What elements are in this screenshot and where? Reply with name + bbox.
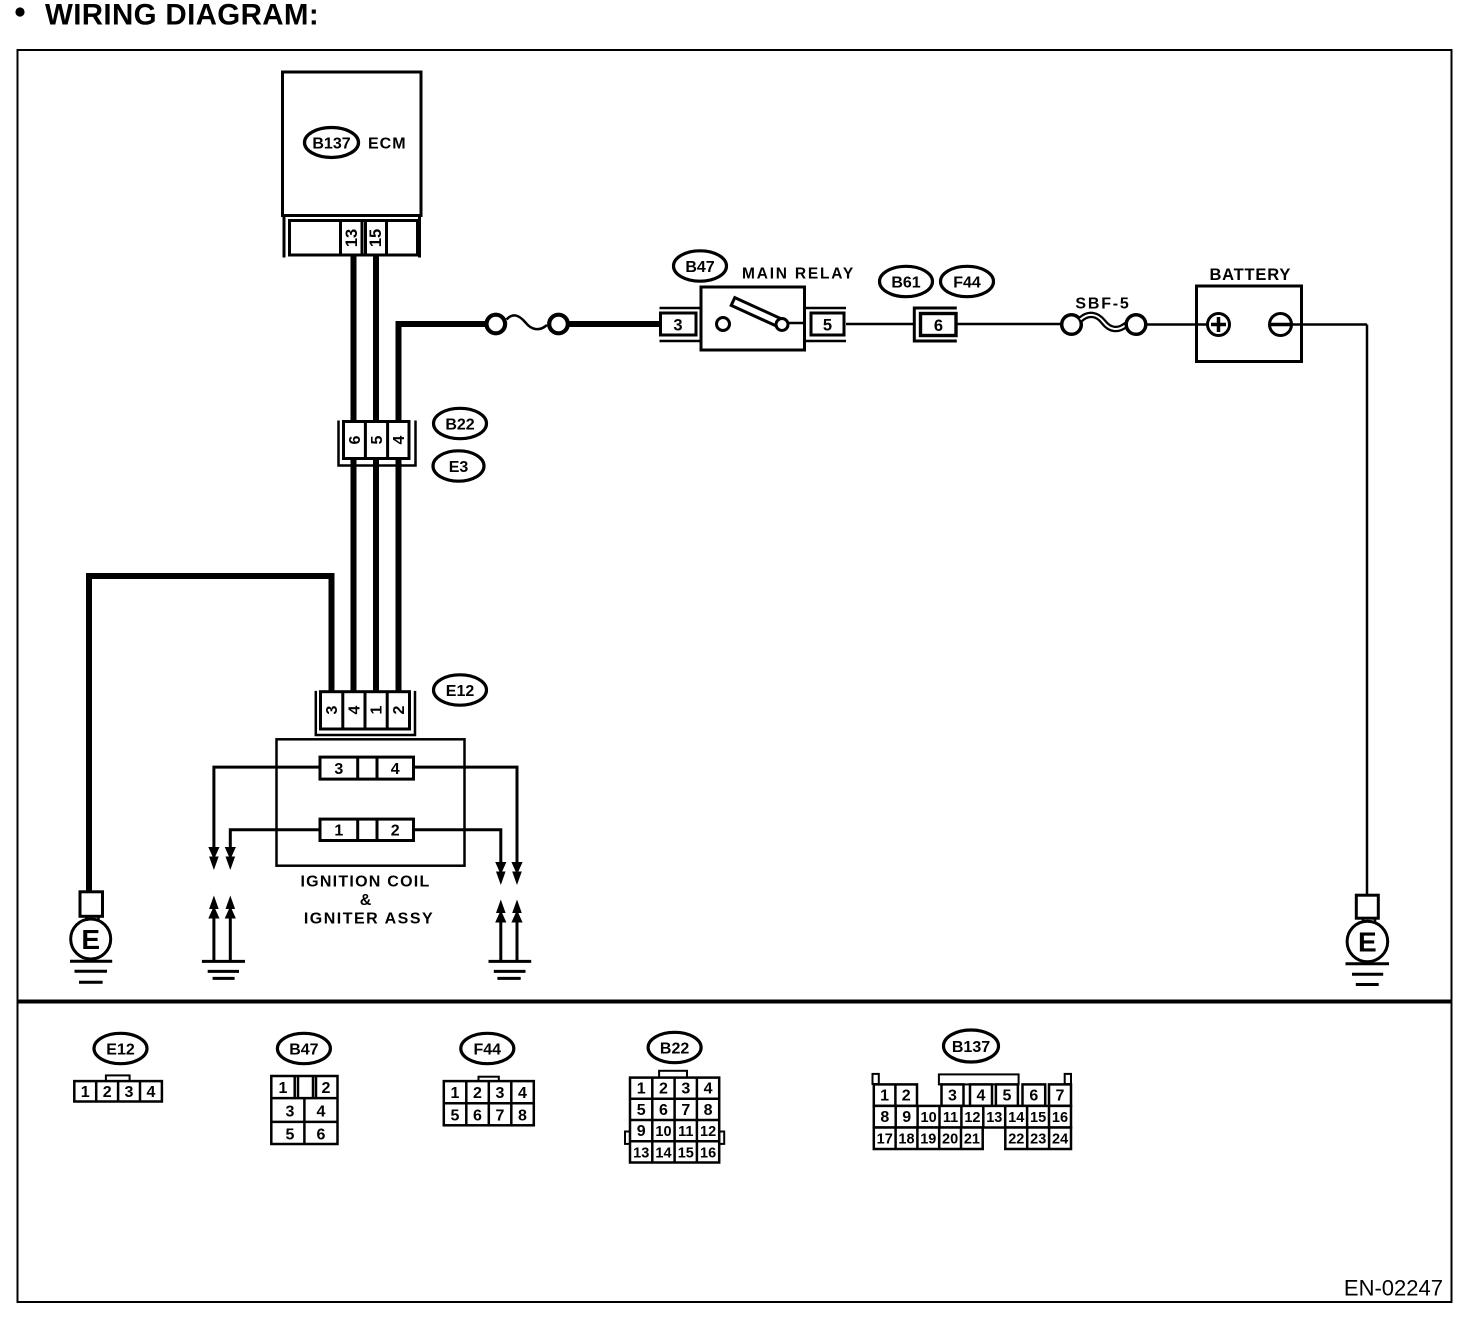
left ground E circle <box>71 919 111 959</box>
legend B137 row3 left <box>874 1128 983 1150</box>
right ground connector square <box>1356 895 1378 918</box>
svg-text:E12: E12 <box>446 683 475 700</box>
svg-text:SBF-5: SBF-5 <box>1075 296 1130 313</box>
svg-text:WIRING DIAGRAM:: WIRING DIAGRAM: <box>45 0 319 32</box>
svg-text:1: 1 <box>369 705 386 714</box>
connector oval B137 <box>305 128 359 158</box>
battery box <box>1197 286 1302 362</box>
svg-text:6: 6 <box>473 1108 482 1125</box>
legend B47 oval <box>277 1033 330 1063</box>
legend B47 grid <box>271 1076 337 1144</box>
relay pin 3 connector top line <box>660 307 702 310</box>
svg-text:7: 7 <box>1056 1088 1065 1105</box>
svg-text:6: 6 <box>347 435 364 444</box>
connector E12 box <box>321 692 410 729</box>
wire relay branch horizontal <box>396 321 487 327</box>
svg-text:12: 12 <box>700 1124 716 1140</box>
svg-text:23: 23 <box>1030 1132 1046 1148</box>
wire battery down to ground E <box>1366 325 1369 896</box>
battery minus terminal <box>1270 314 1292 336</box>
wire ECM pin15 to E12 pin1 <box>373 255 379 692</box>
left ground connector square <box>80 892 103 917</box>
svg-text:11: 11 <box>943 1110 958 1126</box>
legend B137 center tab <box>939 1074 1019 1084</box>
svg-text:2: 2 <box>391 823 400 840</box>
svg-text:5: 5 <box>286 1127 295 1144</box>
svg-text:12: 12 <box>964 1110 980 1126</box>
svg-text:E: E <box>1358 927 1377 958</box>
coil connector 1-2 <box>320 819 414 840</box>
svg-text:4: 4 <box>391 761 400 778</box>
wire joint to relay pin3 <box>568 321 661 327</box>
legend B22 grid <box>630 1078 719 1163</box>
fuse SBF-5 band <box>1081 315 1127 329</box>
main relay B47 box <box>701 287 805 350</box>
ECM connector shell left side <box>283 216 286 258</box>
spark arrow down right2 <box>511 862 522 875</box>
svg-text:3: 3 <box>496 1085 505 1102</box>
svg-text:5: 5 <box>1002 1088 1011 1105</box>
svg-text:16: 16 <box>1052 1110 1068 1126</box>
svg-text:2: 2 <box>902 1088 911 1105</box>
svg-text:B22: B22 <box>660 1040 689 1057</box>
svg-text:4: 4 <box>391 435 408 444</box>
svg-text:9: 9 <box>902 1109 911 1126</box>
svg-text:10: 10 <box>655 1124 671 1140</box>
svg-text:4: 4 <box>704 1081 713 1098</box>
svg-text:B47: B47 <box>289 1041 318 1058</box>
spark arrow down left2 <box>225 847 236 860</box>
svg-text:1: 1 <box>880 1088 889 1105</box>
svg-text:20: 20 <box>942 1132 958 1148</box>
legend B137 right tab <box>1065 1074 1071 1084</box>
svg-text:7: 7 <box>496 1108 505 1125</box>
wire left ground branch vertical <box>86 573 92 892</box>
legend B137 row2 <box>874 1106 1071 1128</box>
svg-text:3: 3 <box>286 1104 295 1121</box>
svg-text:2: 2 <box>659 1081 668 1098</box>
svg-text:13: 13 <box>633 1145 649 1161</box>
right ground symbol <box>1346 962 1390 965</box>
wire fuse to battery <box>1146 323 1197 326</box>
svg-text:2: 2 <box>391 705 408 714</box>
svg-text:3: 3 <box>948 1088 957 1105</box>
svg-text:4: 4 <box>347 705 364 714</box>
legend B137 row1 cells 1-2 <box>874 1084 917 1106</box>
wire into battery plus <box>1197 323 1208 326</box>
inline joint wave <box>507 315 548 329</box>
wire ECM pin13 to E12 pin4 <box>351 255 357 692</box>
svg-text:18: 18 <box>898 1132 914 1148</box>
svg-text:8: 8 <box>518 1108 527 1125</box>
svg-text:22: 22 <box>1008 1132 1024 1148</box>
svg-text:3: 3 <box>324 705 341 714</box>
oval E3 <box>433 451 484 481</box>
legend E12 tab <box>106 1075 130 1081</box>
wire coil 1 to spark <box>230 830 320 848</box>
relay pin 3 box <box>661 313 697 335</box>
svg-text:B22: B22 <box>445 416 474 433</box>
svg-text:B47: B47 <box>685 259 714 276</box>
svg-text:E3: E3 <box>449 459 469 476</box>
connector 6 outer bracket <box>914 308 957 341</box>
oval B61 <box>880 266 933 296</box>
svg-text:5: 5 <box>369 435 386 444</box>
svg-text:13: 13 <box>986 1110 1002 1126</box>
svg-text:BATTERY: BATTERY <box>1209 266 1291 284</box>
svg-text:3: 3 <box>673 317 682 335</box>
legend F44 oval <box>461 1033 514 1063</box>
legend F44 grid <box>444 1081 534 1125</box>
svg-text:16: 16 <box>700 1145 716 1161</box>
svg-text:2: 2 <box>322 1080 331 1097</box>
ECM connector strip <box>290 221 418 256</box>
svg-text:21: 21 <box>964 1132 980 1148</box>
battery plus terminal <box>1208 314 1230 336</box>
svg-text:8: 8 <box>704 1102 713 1119</box>
fuse SBF-5 right circle <box>1126 315 1146 335</box>
legend B137 left tab <box>873 1074 879 1084</box>
right ground E circle <box>1347 921 1388 962</box>
svg-text:9: 9 <box>637 1123 646 1140</box>
svg-text:6: 6 <box>1029 1088 1038 1105</box>
legend B22 oval <box>648 1032 701 1062</box>
svg-text:1: 1 <box>279 1080 288 1097</box>
wire relay to connector 6 <box>846 323 913 326</box>
wire relay branch vertical <box>396 321 402 692</box>
spark gap up arrows left <box>212 917 215 961</box>
wire left branch to E12 pin3 <box>329 573 335 692</box>
ECM U1 box <box>283 72 422 216</box>
wire coil 2 to spark <box>414 830 501 863</box>
connector E12 bracket <box>316 691 415 735</box>
spark gap up arrows right <box>499 921 502 961</box>
svg-text:13: 13 <box>343 229 361 247</box>
svg-text:B61: B61 <box>891 274 920 291</box>
wire connector6 to fuse <box>958 323 1064 326</box>
svg-text:B137: B137 <box>952 1039 990 1056</box>
svg-text:1: 1 <box>81 1084 90 1101</box>
svg-text:&: & <box>360 892 372 909</box>
legend F44 tab <box>479 1077 499 1081</box>
wire coil 4 to spark <box>414 767 518 863</box>
wire coil 3 to spark <box>214 767 320 848</box>
svg-text:19: 19 <box>920 1132 936 1148</box>
relay pin 3 connector bottom line <box>660 340 702 343</box>
svg-text:4: 4 <box>147 1084 156 1101</box>
svg-text:14: 14 <box>655 1145 671 1161</box>
svg-text:6: 6 <box>659 1102 668 1119</box>
svg-text:8: 8 <box>880 1109 889 1126</box>
relay switch end circle <box>776 319 788 331</box>
oval B22 <box>434 408 487 438</box>
svg-text:2: 2 <box>103 1084 112 1101</box>
svg-text:15: 15 <box>678 1145 694 1161</box>
wire out of battery <box>1292 323 1368 326</box>
connector B22/E3 box <box>344 422 410 459</box>
ECM connector shell right side <box>418 216 421 258</box>
svg-text:15: 15 <box>1030 1110 1046 1126</box>
svg-text:5: 5 <box>637 1102 646 1119</box>
svg-text:1: 1 <box>334 823 343 840</box>
connector 6 inner box <box>921 314 957 336</box>
oval E12 <box>434 675 487 705</box>
svg-text:24: 24 <box>1052 1132 1068 1148</box>
svg-text:6: 6 <box>317 1127 326 1144</box>
svg-text:3: 3 <box>681 1081 690 1098</box>
svg-text:ECM: ECM <box>368 136 407 153</box>
relay pin 5 box <box>811 313 844 335</box>
ignition coil box <box>277 739 465 865</box>
svg-text:15: 15 <box>367 229 385 247</box>
legend B22 side tabs <box>625 1132 630 1144</box>
title bullet <box>15 7 24 16</box>
svg-text:14: 14 <box>1008 1110 1024 1126</box>
relay wire to pin5 <box>788 322 805 325</box>
separator line <box>18 1000 1452 1004</box>
svg-text:6: 6 <box>934 317 943 335</box>
spark arrow down left1 <box>208 847 219 860</box>
svg-text:E: E <box>81 924 100 955</box>
svg-text:3: 3 <box>125 1084 134 1101</box>
svg-text:F44: F44 <box>953 274 981 291</box>
svg-text:3: 3 <box>334 761 343 778</box>
relay pin 5 connector bottom line <box>805 340 847 343</box>
fuse SBF-5 left circle <box>1062 315 1082 335</box>
svg-text:IGNITION COIL: IGNITION COIL <box>300 874 430 891</box>
oval F44 <box>941 266 994 296</box>
coil connector 3-4 <box>320 757 414 779</box>
svg-text:MAIN RELAY: MAIN RELAY <box>742 266 855 283</box>
svg-text:IGNITER ASSY: IGNITER ASSY <box>304 911 434 928</box>
left ground symbol <box>70 960 112 963</box>
svg-text:1: 1 <box>637 1081 646 1098</box>
legend B137 row1 cells 3-7 <box>942 1084 964 1106</box>
spark arrow down right1 <box>495 862 506 875</box>
svg-text:5: 5 <box>451 1108 460 1125</box>
svg-text:F44: F44 <box>474 1041 502 1058</box>
svg-text:4: 4 <box>317 1104 326 1121</box>
svg-text:10: 10 <box>921 1110 937 1126</box>
svg-text:1: 1 <box>451 1085 460 1102</box>
legend B137 row3 right <box>1005 1128 1071 1150</box>
legend B22 tab <box>659 1071 687 1078</box>
svg-text:B137: B137 <box>312 135 350 152</box>
relay contact circle <box>717 318 730 331</box>
relay switch arm <box>731 298 781 327</box>
svg-text:5: 5 <box>823 317 832 335</box>
svg-text:2: 2 <box>473 1085 482 1102</box>
inline joint circle left <box>487 315 506 334</box>
svg-text:11: 11 <box>678 1124 693 1140</box>
wire left ground branch horizontal <box>86 573 335 579</box>
ground symbol right-mid <box>489 960 532 963</box>
legend E12 oval <box>94 1033 147 1063</box>
inline joint circle right <box>549 315 568 334</box>
svg-text:4: 4 <box>977 1088 986 1105</box>
ground symbol left-mid <box>202 960 245 963</box>
relay pin 5 connector top line <box>805 307 847 310</box>
legend B137 oval <box>944 1030 999 1062</box>
connector B22/E3 bracket <box>339 421 416 466</box>
svg-text:4: 4 <box>518 1085 527 1102</box>
svg-text:17: 17 <box>877 1132 893 1148</box>
legend E12 grid <box>74 1081 162 1101</box>
svg-text:EN-02247: EN-02247 <box>1344 1276 1443 1301</box>
oval B47 <box>674 251 727 281</box>
svg-text:7: 7 <box>681 1102 690 1119</box>
svg-text:E12: E12 <box>106 1041 135 1058</box>
